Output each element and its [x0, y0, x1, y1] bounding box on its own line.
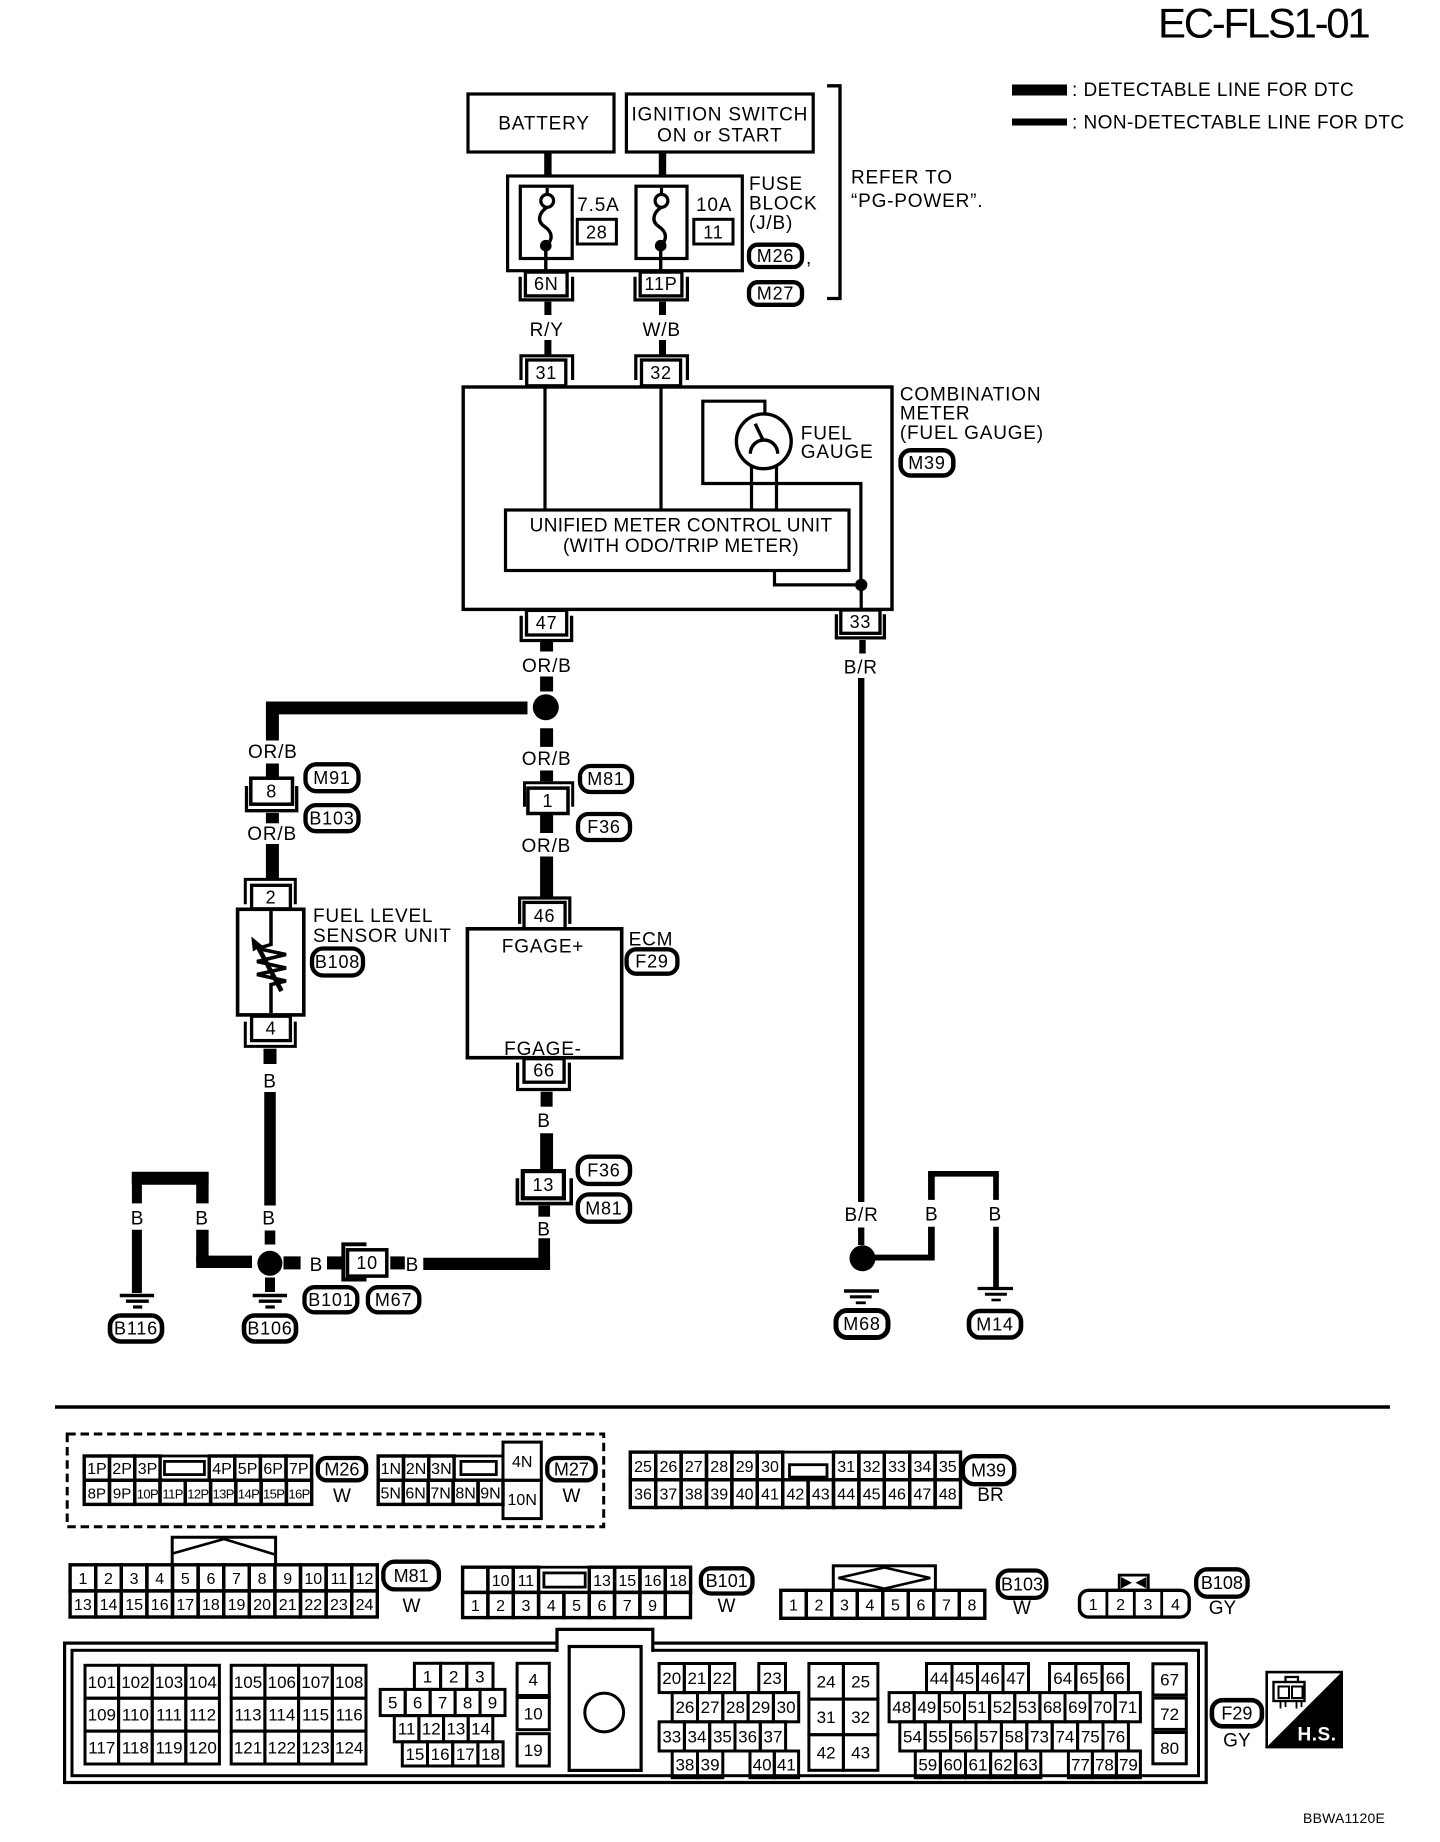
- svg-text:4: 4: [866, 1597, 875, 1614]
- svg-text:B: B: [310, 1255, 323, 1276]
- wire left leg upper: [132, 1172, 142, 1203]
- svg-text:110: 110: [122, 1706, 149, 1725]
- svg-text:(FUEL GAUGE): (FUEL GAUGE): [900, 423, 1044, 444]
- svg-text:5: 5: [572, 1598, 581, 1615]
- wire control unit to node 33: [775, 571, 856, 585]
- svg-text:(WITH ODO/TRIP METER): (WITH ODO/TRIP METER): [563, 536, 799, 557]
- svg-text:16P: 16P: [288, 1486, 309, 1501]
- svg-text:3P: 3P: [138, 1461, 158, 1478]
- wire 66 stub B: [541, 1092, 553, 1107]
- svg-text:B103: B103: [1001, 1574, 1043, 1594]
- wire loop left leg upper: [928, 1174, 935, 1200]
- connector ref B101 oval with colour: [701, 1568, 753, 1617]
- connector ref M81 oval lower: [578, 1194, 630, 1221]
- connector terminal 6N: [520, 272, 572, 300]
- svg-text:3: 3: [1144, 1597, 1153, 1614]
- dashed fuse-block connector group box: [67, 1434, 604, 1527]
- fuse 7.5A symbol: [520, 186, 572, 271]
- wire 33 stub B/R: [859, 640, 865, 654]
- svg-text:BR: BR: [977, 1485, 1003, 1506]
- svg-text:2P: 2P: [112, 1461, 132, 1478]
- svg-text:IGNITION SWITCH: IGNITION SWITCH: [631, 105, 808, 126]
- svg-text:117: 117: [88, 1739, 115, 1758]
- connector ref M39 oval: [901, 450, 954, 475]
- wire inside meter from 32: [659, 388, 662, 510]
- svg-text:M81: M81: [585, 1198, 622, 1218]
- svg-text:B116: B116: [114, 1319, 158, 1339]
- svg-text:18: 18: [669, 1573, 687, 1590]
- svg-text:42: 42: [787, 1487, 805, 1504]
- svg-text:76: 76: [1106, 1727, 1125, 1746]
- connector terminal 11P: [635, 272, 687, 300]
- svg-text:COMBINATION: COMBINATION: [900, 385, 1041, 406]
- svg-text:9: 9: [648, 1598, 657, 1615]
- fuse 10A symbol: [636, 186, 687, 271]
- svg-text:: DETECTABLE LINE FOR DTC: : DETECTABLE LINE FOR DTC: [1072, 80, 1354, 101]
- svg-text:23: 23: [330, 1597, 348, 1614]
- svg-text:25: 25: [634, 1459, 652, 1476]
- svg-text:7: 7: [232, 1571, 241, 1588]
- svg-text:B108: B108: [315, 952, 360, 972]
- wire 11P to 32 W/B: [659, 302, 666, 355]
- svg-text:13: 13: [593, 1573, 611, 1590]
- ECM box: [467, 929, 621, 1060]
- ground ref M14 oval: [969, 1311, 1021, 1338]
- svg-text:M26: M26: [324, 1459, 359, 1479]
- svg-text:1P: 1P: [87, 1461, 107, 1478]
- junction dot inside meter: [855, 579, 867, 591]
- svg-text:M91: M91: [313, 768, 350, 788]
- wire dash above M68 node: [858, 1228, 864, 1246]
- svg-text:33: 33: [662, 1727, 681, 1746]
- connector ref M27 oval with colour: [547, 1458, 595, 1507]
- svg-text:23: 23: [763, 1669, 782, 1688]
- svg-text:46: 46: [981, 1669, 1000, 1688]
- svg-text:BATTERY: BATTERY: [498, 114, 589, 135]
- svg-text:48: 48: [939, 1487, 957, 1504]
- fuse number 11 box: [694, 219, 733, 244]
- svg-text:2: 2: [815, 1597, 824, 1614]
- svg-text:13: 13: [74, 1597, 92, 1614]
- wire loop right leg lower: [993, 1227, 999, 1287]
- svg-text:B101: B101: [706, 1571, 748, 1591]
- svg-text:6P: 6P: [263, 1461, 283, 1478]
- svg-text:43: 43: [851, 1744, 870, 1763]
- svg-text:45: 45: [863, 1487, 881, 1504]
- svg-text:65: 65: [1080, 1669, 1099, 1688]
- svg-text:B108: B108: [1201, 1573, 1243, 1593]
- svg-text:32: 32: [851, 1708, 870, 1727]
- svg-text:1: 1: [789, 1597, 798, 1614]
- terminal 33: [836, 610, 884, 638]
- svg-text:10: 10: [524, 1705, 543, 1724]
- in-line connector 8: [247, 778, 297, 811]
- svg-text:103: 103: [155, 1673, 183, 1692]
- wire stub below 4: [264, 1049, 277, 1064]
- svg-text:B: B: [537, 1220, 550, 1241]
- wire left leg to ground: [132, 1230, 142, 1293]
- terminal 46: [520, 898, 570, 929]
- svg-text:M68: M68: [843, 1314, 880, 1334]
- svg-text:W: W: [563, 1486, 581, 1507]
- svg-text:B: B: [925, 1205, 938, 1226]
- ground junction dot: [257, 1251, 282, 1276]
- svg-text:10: 10: [304, 1571, 322, 1588]
- svg-text:2: 2: [449, 1667, 458, 1686]
- svg-text:M81: M81: [394, 1566, 429, 1586]
- connector ref M26 oval: [749, 245, 812, 269]
- connector ref F29 oval with colour: [1212, 1700, 1262, 1751]
- ECM connector inner box: [72, 1650, 1199, 1775]
- wire B to connector 13: [540, 1133, 553, 1171]
- refer to PG-POWER text: [851, 168, 983, 213]
- svg-text:14P: 14P: [238, 1486, 259, 1501]
- svg-text:F36: F36: [587, 817, 620, 837]
- svg-text:UNIFIED METER CONTROL UNIT: UNIFIED METER CONTROL UNIT: [530, 516, 833, 537]
- connector M27 pin grid: [378, 1442, 541, 1519]
- svg-text:41: 41: [761, 1487, 779, 1504]
- wire right leg upper: [196, 1172, 208, 1203]
- svg-text:7: 7: [623, 1598, 632, 1615]
- svg-text:METER: METER: [900, 404, 971, 425]
- svg-text:10: 10: [492, 1573, 510, 1590]
- svg-text:52: 52: [993, 1698, 1012, 1717]
- svg-text:4: 4: [1171, 1597, 1180, 1614]
- svg-text:45: 45: [955, 1669, 974, 1688]
- ground symbol M14: [978, 1289, 1013, 1301]
- svg-text:40: 40: [736, 1487, 754, 1504]
- svg-text:24: 24: [817, 1672, 836, 1691]
- wire node to terminal 33: [860, 585, 863, 609]
- svg-text:1N: 1N: [381, 1461, 401, 1478]
- svg-text:F29: F29: [1221, 1704, 1252, 1724]
- svg-text:62: 62: [994, 1755, 1013, 1774]
- svg-text:16: 16: [431, 1745, 450, 1764]
- svg-text:32: 32: [650, 363, 672, 383]
- svg-text:F36: F36: [587, 1161, 620, 1181]
- connector ref M81 oval with colour: [383, 1562, 439, 1617]
- terminal 32: [636, 356, 688, 386]
- wire ignition to fuse block: [659, 152, 666, 177]
- fuel level sensor unit box: [238, 909, 304, 1015]
- svg-text:104: 104: [188, 1673, 216, 1692]
- junction node dot: [533, 694, 559, 720]
- svg-text:118: 118: [122, 1739, 149, 1758]
- svg-text:111: 111: [156, 1706, 182, 1725]
- fuel gauge box and feed line: [703, 401, 861, 579]
- svg-text:2: 2: [496, 1598, 505, 1615]
- ECM connector pin group 20-41: [659, 1664, 799, 1778]
- connector ref B101 oval: [305, 1287, 358, 1312]
- svg-text:4: 4: [266, 1019, 277, 1039]
- svg-text:3: 3: [521, 1598, 530, 1615]
- svg-text:31: 31: [817, 1708, 836, 1727]
- wire horizontal to ground node: [196, 1256, 252, 1268]
- svg-text:10A: 10A: [696, 195, 732, 216]
- svg-text:20: 20: [662, 1669, 681, 1688]
- svg-text:16: 16: [644, 1573, 662, 1590]
- svg-text:25: 25: [851, 1672, 870, 1691]
- svg-text:M39: M39: [971, 1460, 1006, 1480]
- svg-text:15P: 15P: [263, 1486, 284, 1501]
- svg-text:2: 2: [104, 1571, 113, 1588]
- svg-text:OR/B: OR/B: [521, 836, 571, 857]
- ECM connector outer box: [65, 1643, 1207, 1782]
- svg-text:H.S.: H.S.: [1298, 1725, 1337, 1746]
- wire loop right leg upper: [993, 1174, 999, 1200]
- wire stub to connector 8: [266, 764, 279, 779]
- svg-text:31: 31: [535, 363, 557, 383]
- svg-text:5P: 5P: [238, 1461, 258, 1478]
- svg-text:42: 42: [817, 1744, 836, 1763]
- svg-text:75: 75: [1081, 1727, 1100, 1746]
- wire 47 stub OR/B: [540, 642, 553, 652]
- svg-text:,: ,: [806, 248, 812, 269]
- ECM connector pin group 24-43: [809, 1664, 878, 1771]
- svg-text:69: 69: [1068, 1698, 1087, 1717]
- fuel level sensor label: [313, 906, 452, 947]
- svg-text:1: 1: [78, 1571, 87, 1588]
- legend detectable thick bar: [1012, 85, 1067, 96]
- svg-text:80: 80: [1160, 1739, 1179, 1758]
- svg-text:32: 32: [863, 1459, 881, 1476]
- svg-text:9: 9: [488, 1694, 497, 1713]
- svg-text:M26: M26: [757, 246, 794, 266]
- svg-text:73: 73: [1030, 1727, 1049, 1746]
- connector ref M27 oval: [749, 282, 802, 305]
- ECM connector top tab: [557, 1629, 653, 1652]
- wire loop left leg lower: [928, 1227, 935, 1261]
- connector B108 housing clip: [1119, 1575, 1148, 1590]
- wire B/R long run: [858, 678, 864, 1202]
- ECM connector bolt hole box: [569, 1647, 641, 1771]
- svg-text:39: 39: [701, 1755, 720, 1774]
- wire inside meter from 31: [543, 388, 546, 510]
- connector ref M26 oval with colour: [318, 1458, 366, 1507]
- ECM connector pin column 67 72 80: [1153, 1664, 1186, 1764]
- svg-text:12P: 12P: [187, 1486, 208, 1501]
- svg-text:7P: 7P: [289, 1461, 309, 1478]
- svg-text:BLOCK: BLOCK: [749, 194, 817, 215]
- connector ref M39 oval with colour: [963, 1456, 1014, 1506]
- svg-text:B: B: [263, 1072, 276, 1093]
- svg-text:24: 24: [356, 1597, 374, 1614]
- svg-text:53: 53: [1018, 1698, 1037, 1717]
- svg-text:19: 19: [524, 1741, 543, 1760]
- svg-text:FGAGE-: FGAGE-: [504, 1039, 582, 1060]
- svg-text:119: 119: [155, 1739, 182, 1758]
- svg-text:38: 38: [675, 1755, 694, 1774]
- svg-text:10P: 10P: [137, 1486, 158, 1501]
- connector M81 housing tab: [172, 1537, 275, 1565]
- svg-text:47: 47: [536, 613, 558, 633]
- svg-text:79: 79: [1119, 1755, 1138, 1774]
- svg-text:8N: 8N: [455, 1485, 475, 1502]
- connector B101 pin grid: [463, 1567, 691, 1617]
- wire dash below ground node: [265, 1278, 275, 1293]
- connector ref B103 oval: [306, 805, 359, 831]
- svg-text:14: 14: [471, 1720, 490, 1739]
- connector B108 pin grid: [1080, 1590, 1190, 1617]
- ground junction dot M68: [850, 1245, 876, 1271]
- ECM connector pin group 101-120: [85, 1665, 219, 1764]
- svg-text:6: 6: [917, 1597, 926, 1614]
- connector ref B108 oval with colour: [1196, 1569, 1247, 1619]
- svg-text:56: 56: [954, 1727, 973, 1746]
- svg-text:37: 37: [764, 1727, 783, 1746]
- svg-text:113: 113: [234, 1706, 261, 1725]
- wire loop top bar left: [132, 1172, 209, 1185]
- ground ref M68 oval: [836, 1311, 888, 1338]
- svg-text:1: 1: [471, 1598, 480, 1615]
- svg-text:7N: 7N: [430, 1485, 450, 1502]
- svg-text:6: 6: [206, 1571, 215, 1588]
- svg-text:29: 29: [751, 1698, 770, 1717]
- svg-text:33: 33: [850, 612, 872, 632]
- svg-text:101: 101: [88, 1673, 116, 1692]
- svg-text:7: 7: [942, 1597, 951, 1614]
- svg-text:29: 29: [736, 1459, 754, 1476]
- svg-text:13: 13: [533, 1175, 555, 1195]
- svg-text:67: 67: [1160, 1670, 1179, 1689]
- svg-text:114: 114: [268, 1706, 295, 1725]
- svg-text:12: 12: [422, 1720, 441, 1739]
- svg-text:120: 120: [188, 1739, 216, 1758]
- fuel gauge legs to control unit: [752, 466, 777, 510]
- refer-to bracket: [827, 86, 840, 299]
- svg-text:54: 54: [903, 1727, 922, 1746]
- wire right leg lower: [196, 1230, 208, 1262]
- svg-text:1: 1: [423, 1667, 432, 1686]
- svg-text:4: 4: [528, 1670, 537, 1689]
- wire dash above junction: [540, 677, 553, 692]
- terminal 4: [245, 1016, 295, 1046]
- svg-text:GY: GY: [1223, 1731, 1251, 1752]
- svg-text:112: 112: [189, 1706, 216, 1725]
- svg-text:47: 47: [1006, 1669, 1025, 1688]
- wire 6N to 31 R/Y: [544, 302, 551, 355]
- wire left branch corner: [266, 702, 279, 741]
- svg-text:36: 36: [634, 1487, 652, 1504]
- svg-text:14: 14: [100, 1597, 118, 1614]
- svg-text:13P: 13P: [213, 1486, 234, 1501]
- svg-text:EC-FLS1-01: EC-FLS1-01: [1158, 0, 1369, 47]
- svg-text:M14: M14: [976, 1314, 1013, 1334]
- wire stub below connector 1: [540, 814, 553, 834]
- svg-text:B: B: [989, 1205, 1002, 1226]
- connector ref B103 oval with colour: [998, 1571, 1047, 1620]
- svg-text:B/R: B/R: [845, 1205, 879, 1226]
- svg-text:R/Y: R/Y: [530, 320, 564, 341]
- svg-text:18: 18: [202, 1597, 220, 1614]
- svg-text:34: 34: [914, 1459, 932, 1476]
- ECM connector pin group 1-19 pyramid: [380, 1663, 505, 1766]
- wire dash above ground node: [265, 1231, 276, 1245]
- svg-text:4: 4: [547, 1598, 556, 1615]
- wire dash below junction: [540, 728, 553, 747]
- ECM connector pin column 4 10 19: [517, 1663, 549, 1766]
- svg-text:115: 115: [302, 1706, 329, 1725]
- svg-text:F29: F29: [635, 952, 668, 972]
- ground ref B116 oval: [110, 1316, 162, 1342]
- svg-text:30: 30: [761, 1459, 779, 1476]
- svg-text:31: 31: [837, 1459, 855, 1476]
- svg-text:106: 106: [268, 1673, 296, 1692]
- ground ref B106 oval: [244, 1316, 296, 1342]
- in-line connector 1: [525, 783, 573, 814]
- svg-text:8: 8: [968, 1597, 977, 1614]
- svg-text:60: 60: [943, 1755, 962, 1774]
- wire horizontal junction to left branch: [266, 701, 528, 714]
- svg-text:116: 116: [336, 1706, 363, 1725]
- section separator line: [55, 1405, 1390, 1409]
- svg-text:B106: B106: [247, 1319, 292, 1339]
- wire stub from ground node: [284, 1256, 301, 1269]
- fuse block J/B box: [508, 176, 743, 271]
- svg-text:9P: 9P: [113, 1485, 131, 1502]
- svg-text:46: 46: [888, 1487, 906, 1504]
- svg-text:26: 26: [660, 1459, 678, 1476]
- svg-text:4: 4: [155, 1571, 164, 1588]
- svg-text:M67: M67: [375, 1290, 412, 1310]
- H.S. hand logo: [1267, 1672, 1342, 1747]
- svg-text:OR/B: OR/B: [522, 749, 572, 770]
- svg-text:7: 7: [438, 1694, 447, 1713]
- wire segment left of connector 10: [327, 1256, 342, 1269]
- svg-text:20: 20: [253, 1597, 271, 1614]
- wire horizontal run to connector 10: [423, 1258, 550, 1270]
- connector ref M81 oval: [580, 766, 632, 792]
- svg-text:OR/B: OR/B: [247, 824, 297, 845]
- svg-text:3: 3: [840, 1597, 849, 1614]
- svg-text:M27: M27: [757, 284, 794, 304]
- svg-text:68: 68: [1043, 1698, 1062, 1717]
- svg-text:35: 35: [713, 1727, 732, 1746]
- in-line connector 10 box: [348, 1250, 387, 1276]
- svg-text:61: 61: [969, 1755, 988, 1774]
- svg-text:66: 66: [533, 1061, 555, 1081]
- svg-text:102: 102: [121, 1673, 149, 1692]
- combination meter label: [900, 385, 1044, 445]
- svg-text:17: 17: [176, 1597, 194, 1614]
- svg-text:123: 123: [301, 1739, 329, 1758]
- ECM connector pin group 44-79: [889, 1664, 1140, 1778]
- svg-text:22: 22: [304, 1597, 322, 1614]
- svg-text:8P: 8P: [88, 1485, 106, 1502]
- svg-text:57: 57: [979, 1727, 998, 1746]
- fuel gauge circle: [736, 414, 791, 469]
- svg-text:15: 15: [618, 1573, 636, 1590]
- svg-text:B: B: [195, 1209, 208, 1230]
- svg-text:105: 105: [234, 1673, 262, 1692]
- fuse block label: [749, 174, 817, 234]
- connector M26 pin grid: [84, 1456, 311, 1504]
- svg-text:108: 108: [335, 1673, 363, 1692]
- svg-text:37: 37: [660, 1487, 678, 1504]
- svg-text:9N: 9N: [480, 1485, 500, 1502]
- svg-text:49: 49: [917, 1698, 936, 1717]
- svg-text:M27: M27: [554, 1459, 589, 1479]
- svg-text:11: 11: [331, 1571, 348, 1588]
- svg-text:35: 35: [939, 1459, 957, 1476]
- wire to terminal 46: [540, 857, 553, 898]
- ground symbol M68: [844, 1291, 879, 1303]
- svg-text:59: 59: [918, 1755, 937, 1774]
- svg-text:40: 40: [753, 1755, 772, 1774]
- ground symbol B116: [120, 1296, 154, 1308]
- svg-text:46: 46: [534, 906, 556, 926]
- svg-text:43: 43: [812, 1487, 830, 1504]
